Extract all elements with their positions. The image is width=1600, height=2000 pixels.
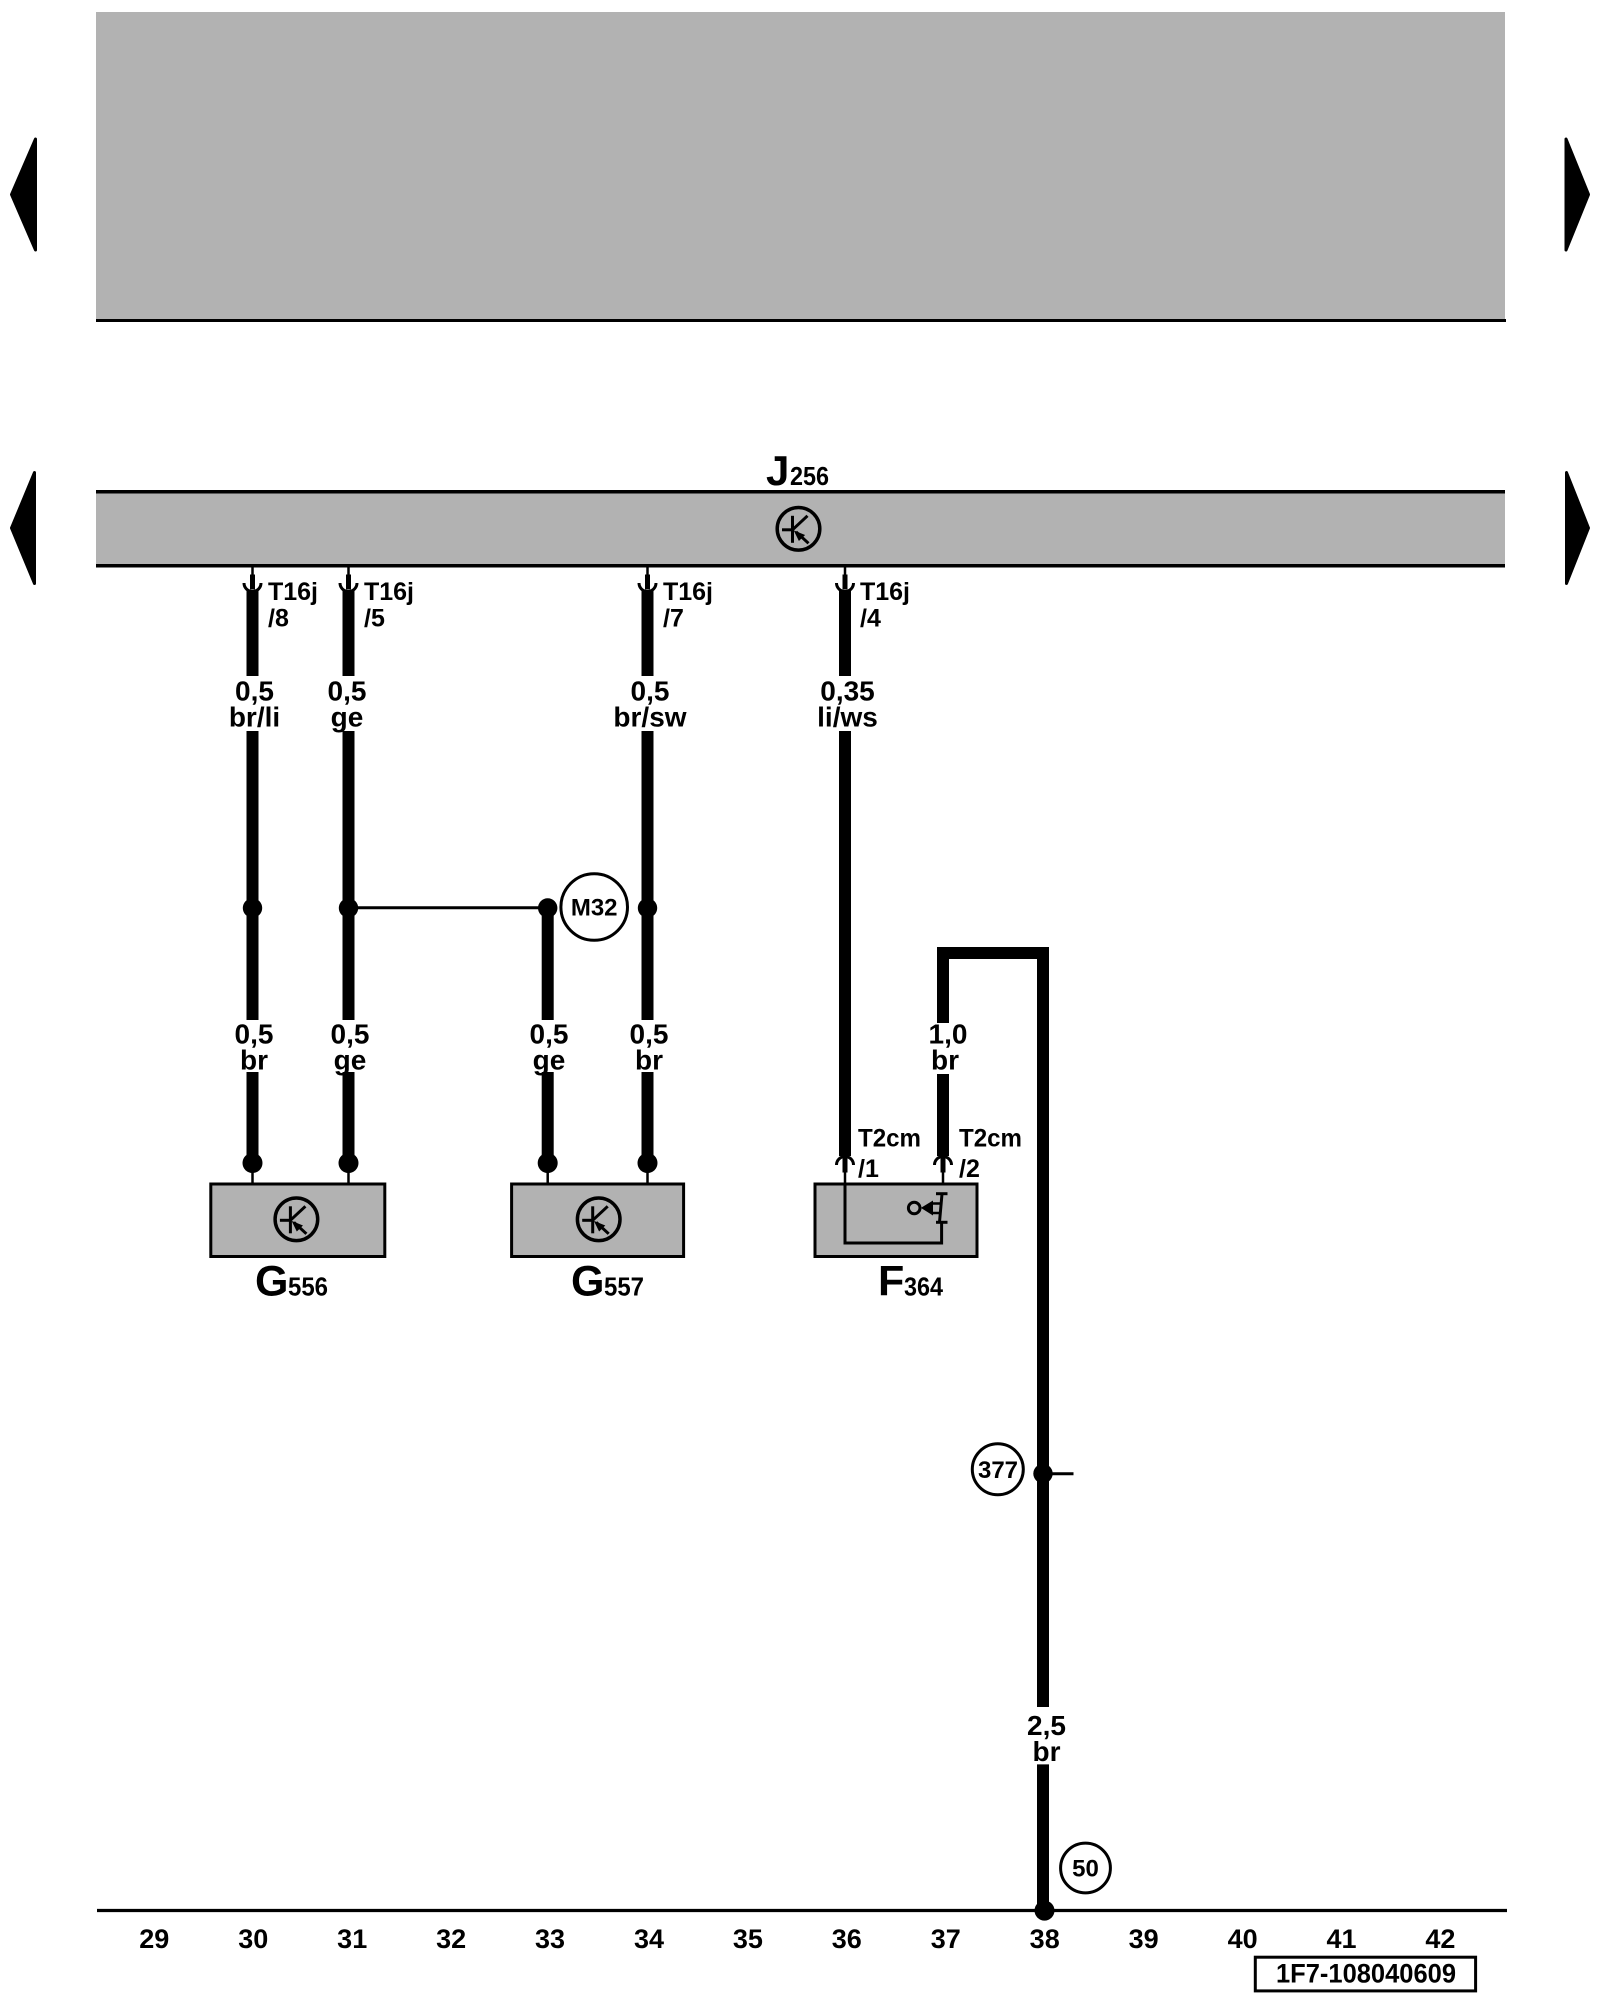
ground terminal dot (1035, 1901, 1055, 1921)
svg-text:/8: /8 (268, 605, 289, 633)
pin lead into G557 pin 2 (646, 1170, 649, 1184)
continuation arrow right (J256 band) (1567, 473, 1589, 584)
svg-text:br/li: br/li (229, 702, 280, 733)
indicator symbol K in G556 (275, 1198, 318, 1241)
connector T16j/5 socket (340, 567, 357, 592)
sender G556 box (211, 1184, 385, 1257)
svg-text:/7: /7 (663, 605, 684, 633)
pin lead into F364 pin 1 (844, 1172, 847, 1184)
svg-text:37: 37 (931, 1924, 961, 1954)
connector T16j/8 socket (244, 567, 261, 592)
top band bottom rail line (96, 319, 1506, 322)
wire label 0,5 ge (G557) (530, 1019, 569, 1076)
wire label 0,5 br/sw (613, 676, 686, 733)
svg-text:li/ws: li/ws (817, 702, 878, 733)
wire label 0,5 ge (328, 676, 367, 733)
wire label 0,5 ge (lower) (331, 1019, 370, 1076)
splice junction dot (M32) (538, 898, 557, 917)
pressure actuator arrow (921, 1201, 933, 1216)
svg-text:/5: /5 (364, 605, 385, 633)
svg-text:ge: ge (334, 1045, 367, 1076)
control module band J256 (96, 492, 1505, 566)
wire ge (terminal 31 column) (343, 591, 355, 1155)
svg-text:T16j: T16j (663, 578, 713, 606)
wire li/ws (terminal 36 column) (839, 591, 851, 1156)
svg-text:556: 556 (288, 1272, 328, 1302)
continuation bus band (top) (96, 12, 1505, 319)
switch contact blade (940, 1194, 943, 1222)
splice link wire M32 (349, 906, 548, 909)
pin lead into F364 pin 2 (942, 1172, 945, 1194)
label J256 (766, 447, 829, 494)
svg-text:557: 557 (604, 1272, 644, 1302)
svg-text:G: G (255, 1258, 288, 1306)
svg-text:32: 32 (436, 1924, 466, 1954)
svg-text:br: br (931, 1045, 959, 1076)
current track numbers (139, 1924, 1455, 1954)
label T2cm/2 (959, 1125, 1022, 1184)
svg-text:br/sw: br/sw (613, 702, 686, 733)
svg-text:M32: M32 (571, 895, 618, 922)
svg-text:T16j: T16j (860, 578, 910, 606)
svg-text:F: F (878, 1258, 904, 1306)
svg-text:br: br (635, 1045, 663, 1076)
terminal dot at G557 pin 1 (538, 1153, 558, 1173)
switch contact upper tick (936, 1192, 948, 1195)
label G556 (255, 1258, 328, 1306)
label F364 (878, 1258, 943, 1306)
label T16j/7 (663, 578, 713, 633)
splice junction M32 dot on wire 31 (339, 898, 358, 917)
svg-text:39: 39 (1129, 1924, 1159, 1954)
svg-text:38: 38 (1030, 1924, 1060, 1954)
splice dot on wire 34 (638, 898, 657, 917)
actuator prong lower (933, 1212, 941, 1215)
svg-text:J: J (766, 447, 789, 494)
connector socket T2cm/1 (837, 1157, 854, 1173)
pressure actuator circle (908, 1202, 920, 1214)
svg-text:42: 42 (1425, 1924, 1455, 1954)
label T16j/8 (268, 578, 318, 633)
wire br/li (terminal 30 column) (247, 591, 259, 1155)
wire 1,0 br (F364 pin 2 loop) (943, 953, 1043, 1707)
terminal dot at G556 pin 2 (339, 1153, 359, 1173)
sender G557 box (512, 1184, 684, 1257)
switch F364 box (815, 1184, 977, 1257)
wire label 0,5 br (235, 1019, 274, 1076)
pin lead into G557 pin 1 (546, 1170, 549, 1184)
svg-text:40: 40 (1228, 1924, 1258, 1954)
label T16j/4 (860, 578, 910, 633)
wire label 0,5 br (G557) (630, 1019, 669, 1076)
junction dot 377 (1033, 1464, 1052, 1483)
indicator symbol K in G557 (577, 1198, 620, 1241)
splice dot on wire 30 (243, 898, 262, 917)
svg-text:33: 33 (535, 1924, 565, 1954)
connector socket T2cm/2 (935, 1157, 952, 1173)
switch contact lower tick (936, 1221, 948, 1224)
svg-text:35: 35 (733, 1924, 763, 1954)
svg-text:T16j: T16j (268, 578, 318, 606)
label T16j/5 (364, 578, 414, 633)
svg-text:30: 30 (238, 1924, 268, 1954)
svg-text:36: 36 (832, 1924, 862, 1954)
svg-text:ge: ge (533, 1045, 566, 1076)
svg-text:34: 34 (634, 1924, 664, 1954)
wire label 0,5 br/li (229, 676, 280, 733)
svg-text:T2cm: T2cm (959, 1125, 1022, 1153)
svg-text:50: 50 (1072, 1856, 1099, 1883)
continuation arrow left (J256 band) (12, 473, 35, 584)
splice designation circle M32 (561, 874, 628, 941)
svg-text:31: 31 (337, 1924, 367, 1954)
svg-text:br: br (240, 1045, 268, 1076)
label T2cm/1 (858, 1125, 921, 1184)
svg-text:G: G (571, 1258, 604, 1306)
svg-text:/4: /4 (860, 605, 881, 633)
wire label 0,35 li/ws (817, 676, 878, 733)
svg-text:377: 377 (978, 1457, 1018, 1484)
stub wire at 377 (1052, 1472, 1074, 1475)
wire br/sw (terminal 34 column) (642, 591, 654, 1155)
ground rail line (97, 1909, 1507, 1912)
svg-text:br: br (1033, 1736, 1061, 1767)
actuator prong upper (933, 1202, 941, 1205)
wire ge to G557 (terminal 33 column) (542, 908, 554, 1155)
svg-text:T2cm: T2cm (858, 1125, 921, 1153)
svg-text:256: 256 (790, 461, 829, 491)
svg-text:41: 41 (1326, 1924, 1356, 1954)
label G557 (571, 1258, 644, 1306)
svg-text:364: 364 (904, 1272, 943, 1302)
connector T16j/4 socket (837, 567, 854, 592)
svg-text:29: 29 (139, 1924, 169, 1954)
indicator symbol K in J256 (777, 508, 820, 551)
internal wiring F364 (845, 1184, 942, 1243)
ground wire 2,5 br (terminal 38 column) (1037, 1764, 1049, 1910)
terminal designation circle 50 (1061, 1843, 1111, 1893)
continuation arrow right (top) (1566, 139, 1589, 250)
svg-text:ge: ge (331, 702, 364, 733)
terminal dot at G556 pin 1 (243, 1153, 263, 1173)
svg-text:/1: /1 (858, 1155, 879, 1183)
diagram code box (1255, 1957, 1475, 1991)
connection designation circle 377 (972, 1444, 1023, 1495)
wire label 1,0 br (929, 1019, 968, 1076)
wire label 2,5 br (1027, 1710, 1066, 1767)
svg-text:T16j: T16j (364, 578, 414, 606)
continuation arrow left (top) (12, 139, 36, 250)
terminal dot at G557 pin 2 (638, 1153, 658, 1173)
pin lead into G556 pin 2 (347, 1170, 350, 1184)
svg-text:1F7-108040609: 1F7-108040609 (1276, 1959, 1456, 1989)
connector T16j/7 socket (639, 567, 656, 592)
svg-text:/2: /2 (959, 1155, 980, 1183)
pin lead into G556 pin 1 (251, 1170, 254, 1184)
